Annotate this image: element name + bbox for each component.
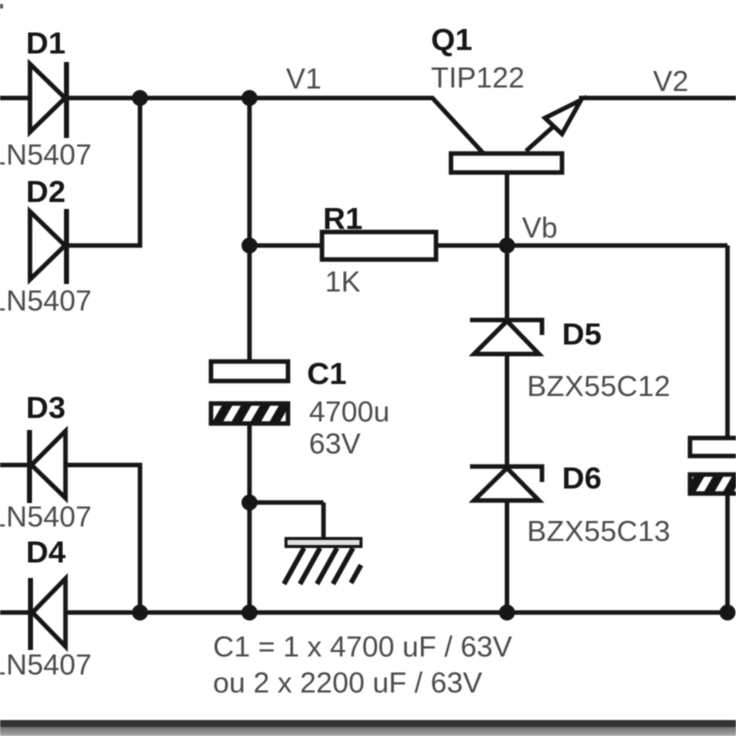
wire: bottom rail bbox=[0, 610, 728, 615]
svg-text:1N5407: 1N5407 bbox=[0, 286, 92, 318]
junction dot node Vb bbox=[499, 238, 515, 254]
junction dot D6 on bottom rail bbox=[499, 605, 515, 621]
svg-text:Vb: Vb bbox=[522, 213, 557, 245]
junction dot D3/D4 on bottom rail bbox=[132, 605, 148, 621]
zener diode D5 bbox=[470, 320, 542, 354]
capacitor C2 top plate (right edge) bbox=[690, 438, 736, 456]
capacitor C1 bottom plate (hatched) bbox=[211, 404, 288, 424]
transistor Q1 base plate bbox=[451, 154, 562, 173]
diode D4 bbox=[31, 578, 66, 650]
wire: C1 bottom to bottom rail bbox=[247, 423, 252, 613]
svg-text:D4: D4 bbox=[26, 535, 66, 570]
wire: center vertical V1 to C1 bbox=[247, 98, 252, 363]
svg-text:D1: D1 bbox=[26, 26, 66, 61]
svg-text:C1: C1 bbox=[307, 356, 347, 391]
wire: right vertical from C2 to bottom rail bbox=[725, 492, 730, 613]
svg-text:BZX55C13: BZX55C13 bbox=[527, 516, 670, 548]
wire: top rail V1 from left edge to Q1 collector bbox=[0, 98, 484, 154]
wire: V2 rail from Q1 emitter to right edge bbox=[579, 96, 736, 101]
transistor Q1 emitter shaft bbox=[526, 126, 554, 151]
svg-text:V2: V2 bbox=[653, 66, 688, 98]
ground symbol bbox=[284, 539, 361, 585]
diode D3 bbox=[30, 430, 66, 503]
svg-text:R1: R1 bbox=[323, 201, 363, 236]
svg-text:BZX55C12: BZX55C12 bbox=[527, 371, 670, 403]
junction dot C2 on bottom rail bbox=[720, 605, 736, 621]
wire: D3 rail and drop to bottom rail bbox=[0, 465, 140, 613]
svg-text:TIP122: TIP122 bbox=[431, 63, 525, 95]
wire: Q1 base down to Vb node bbox=[505, 171, 510, 246]
svg-text:1N5407: 1N5407 bbox=[0, 140, 92, 172]
svg-text:D2: D2 bbox=[26, 174, 66, 209]
svg-text:63V: 63V bbox=[309, 429, 361, 461]
svg-text:V1: V1 bbox=[286, 64, 321, 96]
capacitor C1 top plate bbox=[211, 362, 288, 382]
junction dot C1 on bottom rail bbox=[242, 605, 258, 621]
svg-text:D3: D3 bbox=[26, 390, 66, 425]
diode D2 bbox=[30, 209, 67, 284]
svg-text:1N5407: 1N5407 bbox=[0, 650, 92, 682]
svg-text:C1 = 1 x 4700 uF / 63V: C1 = 1 x 4700 uF / 63V bbox=[213, 632, 513, 664]
svg-text:4700u: 4700u bbox=[309, 397, 390, 429]
diode D1 bbox=[30, 62, 67, 138]
svg-text:1N5407: 1N5407 bbox=[0, 502, 92, 534]
wire: D2 output up to top rail bbox=[66, 98, 140, 246]
junction dot C1 / ground branch bbox=[242, 495, 258, 511]
transistor Q1 emitter arrow bbox=[545, 100, 581, 134]
svg-text:D6: D6 bbox=[562, 461, 602, 496]
junction dot R1 left bbox=[242, 238, 258, 254]
junction dot at D1 cathode / D2 bbox=[132, 90, 148, 106]
wire: ground branch vertical bbox=[321, 503, 326, 541]
wire: R1 left lead bbox=[250, 243, 325, 248]
svg-text:1K: 1K bbox=[325, 267, 361, 299]
wire: D6 anode to bottom rail bbox=[505, 500, 510, 613]
resistor R1 bbox=[322, 232, 436, 260]
svg-text:Q1: Q1 bbox=[431, 22, 472, 57]
capacitor C2 bottom plate (hatched, right edge) bbox=[690, 475, 736, 494]
wire: R1 right lead to Vb to right edge corner bbox=[434, 243, 728, 248]
wire: Vb node down to D5 bbox=[505, 246, 510, 321]
wire: ground branch horizontal bbox=[250, 500, 324, 505]
wire: right vertical from Vb corner down to C2 bbox=[725, 246, 730, 441]
svg-text:ou 2 x 2200 uF / 63V: ou 2 x 2200 uF / 63V bbox=[213, 668, 483, 700]
zener diode D6 bbox=[470, 467, 542, 501]
wire: D5 anode to D6 cathode bbox=[505, 354, 510, 467]
junction dot node V1 bbox=[242, 90, 258, 106]
svg-text:D5: D5 bbox=[562, 317, 602, 352]
